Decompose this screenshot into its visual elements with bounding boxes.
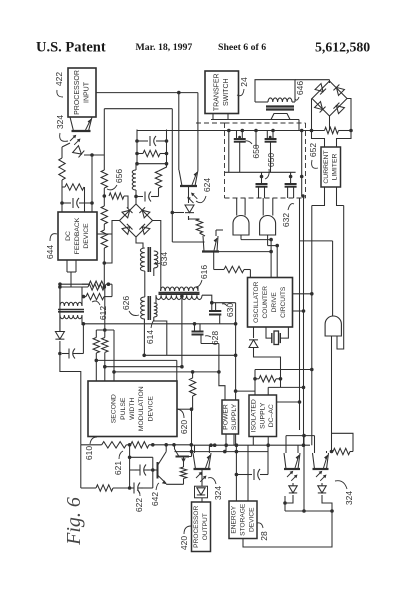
cap C-es (235, 445, 268, 480)
resistor right of box r1 (101, 155, 107, 196)
wires: osc to right rails (293, 292, 314, 313)
wire: left rail to fig bottom (81, 445, 96, 488)
block ENERGY STORAGE DEVICE 28 (229, 501, 257, 539)
svg-text:616: 616 (199, 265, 209, 279)
block OSCILLATOR COUNTER DRIVE CIRCUITS (248, 278, 293, 328)
wire: 616 center tap down (180, 296, 184, 368)
block POWER SUPPLY (222, 400, 239, 434)
wire: bus end bend (298, 120, 300, 131)
LED 324e (316, 471, 327, 493)
right rail B x303.5 (303, 196, 305, 445)
svg-text:SWITCH: SWITCH (223, 78, 230, 106)
resistor 621 r (126, 442, 149, 448)
label 650 b (265, 153, 276, 179)
wire: 626 bottom to bus (144, 317, 166, 355)
wire: isolated right to rail (277, 400, 302, 404)
cap C-a (137, 136, 167, 146)
transistor Q-bl (193, 453, 211, 469)
svg-text:420: 420 (179, 536, 189, 550)
AND gate G3 (325, 316, 341, 336)
caption Fig. 6 (63, 497, 85, 546)
svg-text:632: 632 (281, 213, 291, 227)
svg-text:ENERGY: ENERGY (231, 505, 238, 533)
bridge 634 diode TL (122, 207, 132, 217)
svg-text:PROCESSOR: PROCESSOR (74, 70, 81, 115)
wire: x191 node (189, 452, 192, 457)
wire: 628/630 gate line (195, 303, 238, 446)
wire: right-angle to x198 and down (179, 93, 198, 170)
wire: cap to PWM rail (58, 352, 81, 445)
svg-text:28: 28 (259, 531, 269, 541)
wire: y240.9 branch (300, 241, 333, 316)
svg-text:DEVICE: DEVICE (147, 396, 154, 422)
svg-text:614: 614 (145, 330, 155, 344)
transformer 646 secondary bump (271, 114, 290, 120)
transistor Q2 bottom (175, 445, 190, 467)
svg-text:LIMITER: LIMITER (332, 154, 339, 181)
dashed boundary top-left extension (196, 122, 225, 124)
label 620 (177, 409, 189, 434)
resistor R-b vertical (155, 164, 166, 197)
wire: bottom-left resistor to cap (113, 486, 131, 490)
label 622 (134, 490, 144, 512)
svg-text:324: 324 (55, 115, 65, 129)
label 621 (113, 451, 123, 475)
opto phototransistor under processor input (70, 117, 92, 131)
label 634 (155, 252, 169, 266)
wire: emitter row 642 (166, 479, 183, 485)
svg-text:OSCILLATOR: OSCILLATOR (253, 281, 260, 322)
label 28 (257, 523, 269, 541)
dashed box around transfer mosfets (225, 123, 306, 198)
block PROCESSOR OUTPUT 420 (192, 502, 211, 552)
wire: power supply top (217, 344, 225, 401)
transistor Q-br1 (284, 453, 300, 469)
wires: transformer 616 sides (156, 287, 212, 303)
transformer 616 core (159, 293, 200, 295)
svg-text:MODULATION: MODULATION (138, 386, 145, 431)
wire: box right to bridge leg (97, 233, 112, 235)
wire: G3 output long (330, 336, 334, 453)
svg-text:OUTPUT: OUTPUT (202, 513, 209, 540)
svg-text:624: 624 (202, 178, 212, 192)
transformer 626 right winding (154, 303, 157, 317)
wire: processor input to transfer area (96, 91, 181, 95)
wire: Q-616 top leads (200, 230, 224, 236)
wires: energy storage to bus (236, 445, 248, 501)
junction dots around cap/res pair (135, 139, 168, 165)
transformer 616 bottom winding (156, 295, 202, 299)
cap C-b (134, 192, 158, 202)
transformer 612 bottom winding (60, 315, 82, 319)
svg-text:ISOLATED: ISOLATED (250, 399, 257, 432)
transformer 634 left winding (140, 248, 144, 271)
svg-text:324: 324 (213, 486, 223, 500)
wire: limiter bottom-left to rail (312, 187, 325, 206)
mosfet 650 top-left (234, 131, 246, 173)
block SECOND PULSE WIDTH MODULATION DEVICE (88, 381, 177, 437)
transistor 642 (158, 445, 167, 485)
svg-text:DRIVE: DRIVE (271, 292, 278, 313)
block CURRENT LIMITER 652 (321, 147, 341, 187)
svg-text:642: 642 (150, 492, 160, 506)
wire: r3 to bottom rail (103, 263, 107, 289)
resistor right of box r3 (101, 224, 107, 265)
label 632 (281, 204, 294, 227)
bridge rectifier bottom diode c (315, 102, 326, 113)
transformer 634 right winding (154, 251, 158, 268)
svg-text:Fig. 6: Fig. 6 (63, 497, 85, 546)
resistor 610 r (81, 442, 127, 448)
label 642 (150, 483, 160, 506)
transformer 612 core (58, 310, 84, 312)
transformer 646 winding (255, 98, 295, 102)
crystal Y1 (266, 327, 288, 345)
wire: cap node up to gate line (77, 322, 85, 354)
transformer 646 core bars (266, 107, 294, 110)
bridge 634 diode TR (139, 207, 149, 217)
wire: bridge right corner down (347, 99, 351, 131)
wire: transfer switch stubs to bus (213, 114, 228, 120)
mosfet 650 top-right (265, 131, 277, 173)
resistor R-a horizontal (137, 150, 167, 156)
label 610 (84, 437, 97, 460)
svg-text:PULSE: PULSE (120, 397, 127, 420)
resistor bottom-left (96, 485, 113, 491)
bus: solid y119.5 (211, 119, 299, 121)
wire: 624 emitter chain (188, 186, 190, 220)
wire: r chain right (149, 443, 193, 447)
svg-text:SECOND: SECOND (111, 394, 118, 423)
label 616 (196, 265, 209, 287)
bridge 634 outline (120, 204, 153, 237)
label 646 (295, 81, 305, 100)
svg-text:CIRCUITS: CIRCUITS (280, 286, 287, 318)
wire: y108.7 horizontal (104, 109, 172, 242)
svg-text:620: 620 (179, 420, 189, 434)
label 420 (179, 526, 191, 550)
svg-text:650: 650 (266, 153, 276, 167)
wires: resistor pair top (96, 330, 115, 382)
cap C-613 (60, 341, 80, 359)
LED 324c arrows (195, 472, 208, 498)
label 624 (196, 178, 212, 203)
wire: bottom long wire (243, 511, 332, 547)
label 652 (308, 143, 318, 169)
LED D1 with light arrows (70, 135, 84, 158)
svg-text:DEVICE: DEVICE (248, 507, 255, 532)
svg-text:626: 626 (121, 296, 131, 310)
label 612 (92, 301, 108, 320)
header: date (136, 42, 193, 53)
dots on right rails (302, 368, 314, 390)
rails beside cap/res pair (137, 130, 167, 164)
svg-text:656: 656 (114, 169, 124, 183)
svg-text:DC: DC (65, 231, 72, 241)
right rail D x343.7 (337, 206, 344, 350)
mosfet 650 bottom-left (256, 172, 268, 198)
label 324 e (335, 481, 354, 505)
wires: supplies to bus (226, 434, 268, 452)
bridge rectifier top diode b (333, 84, 344, 95)
wire: right rail inside dashed box (300, 131, 305, 198)
wire: 634 to 626 link (145, 268, 154, 297)
transformer 612 top winding (60, 302, 82, 306)
node dot on rail x173 (171, 211, 185, 215)
wire: limiter top-left feed (312, 131, 325, 148)
label 630 (222, 303, 235, 317)
wire: bridge left corner down to bus (311, 99, 314, 131)
svg-text:INPUT: INPUT (83, 81, 90, 103)
resistor bottom of feedback (88, 284, 104, 290)
label 626 (121, 296, 139, 316)
wire: gate line long left run (83, 323, 194, 325)
transistor Q-616 (202, 236, 219, 252)
wire: spine x129.6 (128, 445, 132, 488)
resistor mid vertical under dot (189, 370, 195, 409)
wire: limiter top-right feed (337, 131, 352, 148)
svg-text:PROCESSOR: PROCESSOR (193, 505, 200, 547)
svg-text:650: 650 (251, 144, 261, 158)
inductor 656 coil (132, 164, 136, 190)
label 324 (top-left opto) (55, 115, 68, 142)
svg-text:5,612,580: 5,612,580 (315, 40, 370, 55)
bus: y355.3 horizontal (142, 354, 235, 358)
label 324 c (208, 478, 223, 500)
svg-text:422: 422 (54, 72, 64, 86)
label 656 (107, 169, 124, 190)
transformer 626 core (148, 296, 150, 320)
wire: 628 source to supply path (201, 335, 219, 344)
bridge rectifier top diode a (315, 84, 326, 95)
block ISOLATED SUPPLY DC-AC (249, 395, 277, 437)
transformer 616 top winding (161, 287, 199, 291)
wire: LED row to node (84, 154, 104, 156)
transformer 626 vertical winding (141, 297, 145, 319)
resistor 629 (253, 376, 282, 382)
label 614 (145, 320, 155, 344)
resistor horizontal 656 area (103, 193, 129, 208)
bus: bottom y445.2 (193, 443, 310, 447)
svg-text:TRANSFER: TRANSFER (214, 73, 221, 111)
svg-text:Sheet 6 of 6: Sheet 6 of 6 (218, 42, 266, 53)
opto phototransistor 624 (179, 170, 198, 186)
wires: three horizontals to PWM area (96, 360, 219, 381)
wire: bridge 634 right to 616 (153, 221, 161, 292)
wires: led network (283, 436, 334, 513)
rails into DC feedback top (85, 153, 94, 212)
cap above DC feedback (60, 198, 94, 208)
svg-text:CURRENT: CURRENT (323, 150, 330, 183)
bridge outline wires (312, 81, 347, 116)
transistor Q-br2 (313, 453, 329, 469)
resistor under 624 (189, 216, 203, 233)
wire: Q-616 emitter row (217, 250, 273, 254)
resistor bottom-right (333, 448, 353, 454)
wire: Q-616 base feed (172, 241, 204, 243)
resistor above DC feedback (62, 180, 84, 212)
wire: mosfet bank internal row (225, 131, 296, 173)
LED 324d (287, 471, 298, 493)
block PROCESSOR INPUT 422 (68, 68, 96, 117)
wires: Q-bl connections (195, 445, 210, 502)
resistor right of box r2 (101, 196, 107, 224)
svg-text:628: 628 (210, 331, 220, 345)
label 422 (54, 72, 64, 97)
wire: bridge 634 left leg (104, 221, 119, 264)
wire: branch y457.3 (130, 457, 155, 488)
svg-text:DC–AC: DC–AC (268, 404, 275, 427)
wire: bridge top to 646 loop (295, 80, 330, 83)
svg-text:SUPPLY: SUPPLY (231, 403, 238, 430)
svg-text:POWER: POWER (222, 404, 229, 430)
svg-text:634: 634 (159, 252, 169, 266)
wires: PWM top feeds (0, 0, 1, 1)
svg-text:646: 646 (295, 81, 305, 95)
svg-text:DEVICE: DEVICE (83, 223, 90, 249)
mosfet 650 bottom-right (285, 172, 297, 198)
svg-text:610: 610 (84, 446, 94, 460)
bus: y130.5 with junction dots (137, 129, 325, 148)
svg-text:24: 24 (239, 77, 249, 87)
svg-text:644: 644 (45, 245, 55, 259)
svg-text:FEEDBACK: FEEDBACK (74, 217, 81, 254)
resistor 617 horizontal (214, 252, 251, 278)
resistor right of 642 (180, 467, 186, 479)
bridge 634 diode BL (122, 224, 132, 234)
wire: y369.5 branch (255, 370, 312, 396)
bus: bottom y451.6 (175, 450, 269, 454)
svg-text:652: 652 (308, 143, 318, 157)
label 644 (45, 234, 57, 259)
svg-text:STORAGE: STORAGE (240, 503, 247, 536)
cap 622 b (129, 483, 153, 494)
block DC FEEDBACK DEVICE 644 (58, 212, 97, 260)
wires: gate outputs (241, 235, 279, 278)
header: sheet (218, 42, 266, 53)
wire: limiter bottom-right to rail (337, 187, 344, 206)
svg-text:WIDTH: WIDTH (129, 398, 136, 420)
block TRANSFER SWITCH 24 (205, 71, 239, 114)
wire: bridge bottom to resistor row (329, 116, 331, 131)
resistor pair above 612 r2 (82, 282, 112, 299)
mosfet 628 (192, 322, 204, 335)
resistor pair above 612 r1 (58, 281, 112, 287)
svg-text:324: 324 (344, 491, 354, 505)
header: patent number (315, 40, 370, 55)
wires: transformer 612 sides (60, 287, 82, 331)
bridge rectifier bottom diode d (333, 103, 344, 114)
mosfet 630 (209, 301, 221, 324)
wire: coil to cap node (135, 190, 137, 204)
svg-text:SUPPLY: SUPPLY (259, 402, 266, 429)
wires: gate inputs from mosfet bank (237, 198, 273, 216)
label 24 (237, 77, 249, 96)
resistor R-cl horizontal (325, 127, 339, 133)
svg-text:Mar. 18, 1997: Mar. 18, 1997 (136, 42, 193, 53)
wire: down to opto 624 left (178, 93, 180, 170)
cap 622 a (130, 465, 157, 476)
LED 324b with arrows (185, 193, 197, 213)
wires: Q-br tops (286, 434, 327, 453)
wire: resistor to bridge-right rail (339, 129, 353, 133)
AND gate G2 (260, 216, 276, 236)
transformer 634 core (148, 247, 150, 272)
wire: left rail down (59, 284, 61, 331)
right rail C x311.8 (311, 206, 313, 446)
svg-text:COUNTER: COUNTER (262, 286, 269, 319)
svg-text:U.S. Patent: U.S. Patent (36, 40, 106, 56)
wire: zener down and right (254, 348, 281, 387)
resistor R-in vertical (59, 143, 70, 180)
resistor pair mid r2 (102, 287, 108, 382)
wire: bridge 634 bottom to transformer (136, 237, 143, 248)
right rail A x299.5 (299, 198, 301, 430)
wire: y387.4 branch (268, 387, 303, 395)
zener 627 (249, 327, 258, 348)
resistor pair mid r1 (93, 330, 99, 382)
bridge 634 diode BR (139, 224, 149, 234)
wire: y391 link (236, 390, 255, 392)
svg-text:612: 612 (98, 306, 108, 320)
AND gate G1 (233, 216, 249, 236)
wires: box bottom stubs (58, 260, 88, 289)
svg-text:621: 621 (113, 461, 123, 475)
wire: PWM right to rail (177, 407, 193, 451)
transformer 646 housing loop (255, 80, 295, 102)
header: U.S. Patent (36, 40, 106, 56)
label 650 a (245, 141, 261, 159)
label 628 (205, 331, 220, 345)
zener diode 613 (55, 332, 64, 340)
wire: resistor loop up (332, 433, 354, 451)
svg-text:622: 622 (134, 498, 144, 512)
